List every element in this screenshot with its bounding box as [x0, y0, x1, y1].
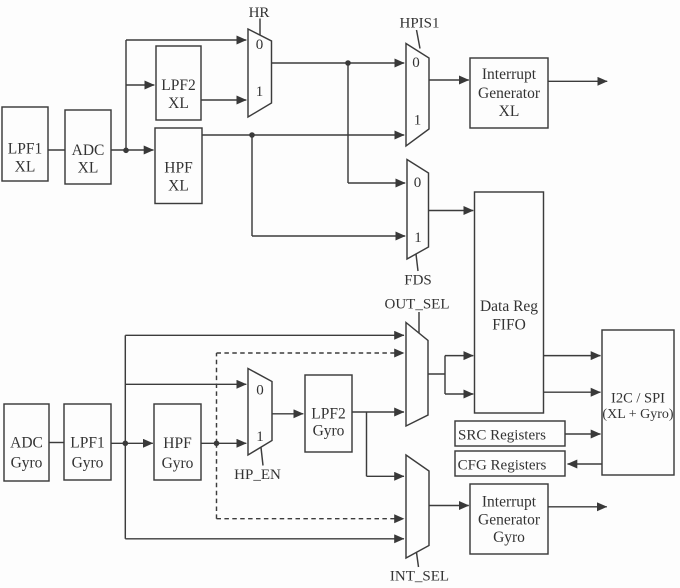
mux OUT_SEL [406, 323, 428, 427]
junction node D (LPF1 Gyro output) [123, 441, 129, 447]
svg-text:XL: XL [168, 178, 189, 195]
INT_SEL select tick [417, 553, 419, 568]
svg-text:1: 1 [256, 429, 264, 445]
wire split to FIFO upper input [445, 355, 473, 357]
junction node C (HPF XL output) [249, 132, 255, 138]
junction node B (HR mux output) [345, 60, 351, 66]
wire FDS mux output to Data Reg FIFO [429, 210, 474, 212]
svg-text:0: 0 [412, 55, 420, 71]
svg-text:1: 1 [414, 113, 422, 129]
HPIS1 select tick [417, 30, 421, 49]
box LPF2 XL [156, 46, 201, 120]
wire I2C to CFG Registers [568, 463, 603, 465]
svg-text:Data Reg: Data Reg [480, 298, 538, 315]
svg-text:OUT_SEL: OUT_SEL [385, 297, 450, 313]
wire node C to FDS mux input 1 [252, 235, 405, 237]
box LPF2 Gyro [305, 375, 352, 452]
svg-text:INT_SEL: INT_SEL [390, 569, 449, 585]
OUT_SEL select tick [418, 312, 420, 333]
svg-text:Generator: Generator [478, 85, 541, 102]
wire FIFO to I2C upper [544, 355, 601, 357]
svg-text:I2C / SPI: I2C / SPI [611, 391, 665, 407]
svg-text:FIFO: FIFO [492, 317, 526, 334]
dashed wire from node E down [216, 443, 218, 518]
wire HPIS1 mux output to Interrupt Generator XL [429, 79, 469, 81]
svg-text:Gyro: Gyro [11, 455, 43, 472]
svg-text:SRC Registers: SRC Registers [458, 428, 546, 444]
svg-text:Gyro: Gyro [162, 455, 194, 472]
wire HR mux output to HPIS1 mux input 0 [272, 62, 405, 64]
junction node A (ADC XL output) [123, 148, 129, 154]
wire LPF1 Gyro to HPF Gyro [111, 442, 153, 444]
box ADC XL [65, 110, 111, 184]
FDS select tick [416, 254, 418, 271]
wire branch to LPF2 XL [126, 84, 154, 86]
box ADC Gyro [4, 404, 49, 481]
svg-text:HPIS1: HPIS1 [399, 16, 439, 32]
svg-text:0: 0 [256, 37, 264, 53]
box LPF1 XL [2, 107, 48, 181]
svg-text:Interrupt: Interrupt [482, 66, 537, 83]
svg-text:CFG Registers: CFG Registers [458, 458, 547, 474]
wire node B to FDS mux input 0 [348, 182, 405, 184]
mux INT_SEL [406, 455, 429, 558]
svg-text:Gyro: Gyro [313, 423, 345, 440]
wire SRC Registers to I2C [565, 433, 601, 435]
box I2C / SPI (XL + Gyro) [602, 330, 674, 475]
box Interrupt Generator XL [470, 58, 548, 128]
wire HP_EN mux output to LPF2 Gyro [272, 413, 303, 415]
wire LPF2 Gyro output to OUT_SEL mux bottom input [352, 411, 404, 413]
wire ADC XL to HPF XL [111, 149, 154, 151]
svg-text:LPF2: LPF2 [311, 406, 345, 423]
mux FDS [407, 160, 429, 260]
box Data Reg FIFO [475, 192, 544, 413]
svg-text:LPF2: LPF2 [161, 77, 195, 94]
wire branch node D to HP_EN mux input 0 [125, 383, 246, 385]
svg-text:Gyro: Gyro [72, 455, 104, 472]
svg-text:1: 1 [414, 230, 422, 246]
svg-text:0: 0 [414, 175, 422, 191]
wire drop from node C [251, 135, 253, 236]
svg-text:1: 1 [256, 84, 264, 100]
wire FIFO to I2C lower [544, 391, 601, 393]
wire INT_SEL mux output to Interrupt Generator Gyro [429, 505, 469, 507]
box LPF1 Gyro [64, 404, 111, 480]
wire tee from LPF2 Gyro output down [366, 412, 368, 476]
svg-text:0: 0 [256, 383, 264, 399]
wire to INT_SEL mux top input [367, 475, 405, 477]
svg-text:XL: XL [15, 159, 36, 176]
box Interrupt Generator Gyro [470, 484, 548, 554]
box SRC Registers [455, 421, 565, 446]
wire LPF1 XL to ADC XL [48, 149, 65, 151]
svg-text:HP_EN: HP_EN [234, 467, 281, 483]
dashed wire to OUT_SEL mux middle input [217, 352, 405, 354]
wire drop from node B [347, 63, 349, 183]
wire HPF XL output to HPIS1 mux input 1 [202, 134, 404, 136]
HP_EN select tick [261, 448, 263, 466]
svg-text:ADC: ADC [10, 435, 43, 452]
svg-text:HR: HR [249, 5, 270, 21]
svg-text:XL: XL [499, 103, 520, 120]
wire Interrupt Generator Gyro output [548, 506, 607, 508]
svg-text:ADC: ADC [72, 142, 105, 159]
wire node D to OUT_SEL mux top input [125, 334, 404, 336]
svg-text:(XL + Gyro): (XL + Gyro) [602, 407, 673, 422]
wire split to FIFO lower input [445, 393, 473, 395]
wire riser from node D up [124, 335, 126, 443]
svg-text:XL: XL [78, 160, 99, 177]
dashed wire from node E up [216, 353, 218, 443]
wire HPF Gyro to HP_EN mux input 1 [201, 442, 246, 444]
wire node D to INT_SEL mux bottom input [125, 538, 404, 540]
wire drop from node D down [124, 443, 126, 539]
box HPF Gyro [154, 404, 201, 480]
mux HR [248, 29, 272, 117]
mux HP_EN (gyro HPF bypass) [248, 369, 272, 456]
svg-text:HPF: HPF [164, 160, 193, 177]
wire node A to HR mux input 0 [126, 39, 246, 41]
wire riser from node A up [125, 40, 127, 150]
box CFG Registers [455, 451, 565, 476]
dashed wire to INT_SEL mux middle input [217, 518, 405, 520]
svg-text:Gyro: Gyro [493, 529, 525, 546]
HR select tick [259, 19, 261, 36]
svg-text:LPF1: LPF1 [70, 435, 104, 452]
box HPF XL [155, 128, 202, 204]
svg-text:FDS: FDS [404, 273, 432, 289]
svg-text:HPF: HPF [163, 435, 192, 452]
svg-text:Generator: Generator [478, 512, 541, 529]
wire LPF2 XL to HR mux input 1 [201, 99, 246, 101]
wire OUT_SEL mux output [428, 373, 445, 375]
svg-text:Interrupt: Interrupt [482, 494, 537, 511]
mux HPIS1 [406, 44, 429, 147]
svg-text:LPF1: LPF1 [8, 141, 42, 158]
junction node E (HPF Gyro output) [214, 441, 220, 447]
svg-text:XL: XL [168, 95, 189, 112]
wire Interrupt Generator XL output [548, 80, 607, 82]
wire OUT_SEL output split riser [444, 356, 446, 394]
wire ADC Gyro to LPF1 Gyro [49, 442, 64, 444]
